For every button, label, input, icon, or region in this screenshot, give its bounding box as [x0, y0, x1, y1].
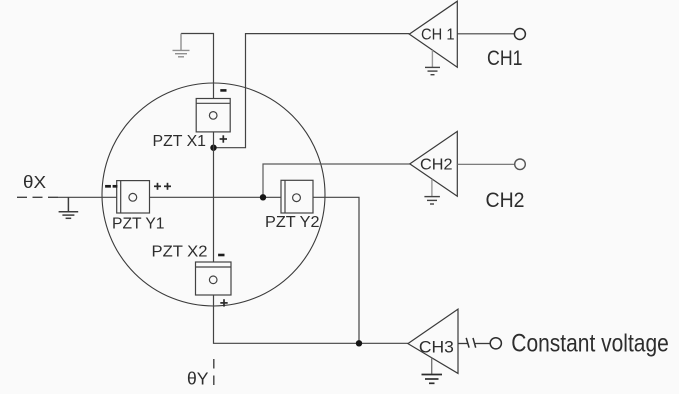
ground (CH1 amp) — [425, 50, 440, 74]
node C junction dot on bottom bus — [356, 340, 362, 346]
svg-text:PZT Y1: PZT Y1 — [112, 216, 165, 233]
op-amp CH 1 — [409, 1, 457, 67]
wire CH1 output — [457, 33, 514, 35]
PZT X1 element — [196, 99, 230, 132]
ground (CH3 amp) — [422, 358, 443, 384]
ground (top) — [173, 34, 190, 57]
horizontal center wire PZT Y1 to PZT Y2 — [150, 196, 282, 198]
svg-text:PZT Y2: PZT Y2 — [265, 214, 320, 231]
svg-text:CH3: CH3 — [419, 338, 454, 356]
polarity ++ right of PZT Y1 — [154, 183, 171, 190]
polarity - above PZT X1 — [220, 89, 226, 92]
wire CH2 input (junction up then right to CH2 amp) — [263, 164, 410, 197]
polarity + below PZT X1 — [220, 135, 227, 142]
polarity - above PZT X2 — [218, 254, 224, 257]
node B junction dot on Y wire — [260, 194, 266, 200]
wire PZT Y2 right down to bottom bus — [313, 197, 359, 343]
theta-X dashed lead-in — [17, 196, 60, 198]
theta-Y dashed lead — [213, 359, 215, 389]
svg-text:CH2: CH2 — [420, 157, 453, 174]
svg-text:CH1: CH1 — [487, 47, 523, 70]
wire CH2 output — [457, 163, 514, 165]
PZT X2 element — [196, 262, 232, 295]
wire left horizontal into PZT Y1 — [58, 196, 117, 198]
PZT Y2 element — [281, 180, 313, 213]
wire to CH3 terminal — [474, 343, 490, 345]
polarity -- left of PZT Y1 — [105, 185, 117, 188]
svg-text:Constant voltage: Constant voltage — [511, 330, 669, 358]
terminal CH1 — [514, 29, 525, 40]
polarity + below PZT X2 — [220, 299, 227, 306]
terminal Constant voltage — [490, 338, 501, 349]
wire CH3 output segment — [458, 343, 468, 345]
svg-text:PZT X2: PZT X2 — [152, 244, 208, 261]
svg-text:θX: θX — [23, 172, 46, 192]
wire from PZT X1 top to top ground — [181, 34, 214, 99]
PZT Y1 element — [117, 181, 150, 213]
svg-text:CH 1: CH 1 — [421, 27, 455, 44]
wire CH3 input (PZT X2 bottom down and right to CH3 amp) — [214, 295, 408, 343]
vertical center wire (PZT X1 bottom to PZT X2 top) — [213, 132, 215, 262]
node A junction dot under PZT X1 — [210, 145, 216, 151]
scanner disc outline — [102, 83, 325, 306]
wire CH1 input (from node under PZT X1 up and right to CH1 amp) — [214, 34, 410, 148]
terminal CH2 — [515, 159, 526, 170]
svg-text:CH2: CH2 — [486, 189, 525, 212]
svg-text:θY: θY — [187, 369, 209, 389]
ground (CH2 amp) — [424, 179, 440, 204]
op-amp CH2 — [410, 131, 458, 196]
op-amp CH3 — [408, 309, 458, 373]
break symbol (double slash) — [466, 338, 476, 348]
ground (left) — [59, 197, 79, 218]
svg-text:PZT X1: PZT X1 — [153, 133, 207, 150]
